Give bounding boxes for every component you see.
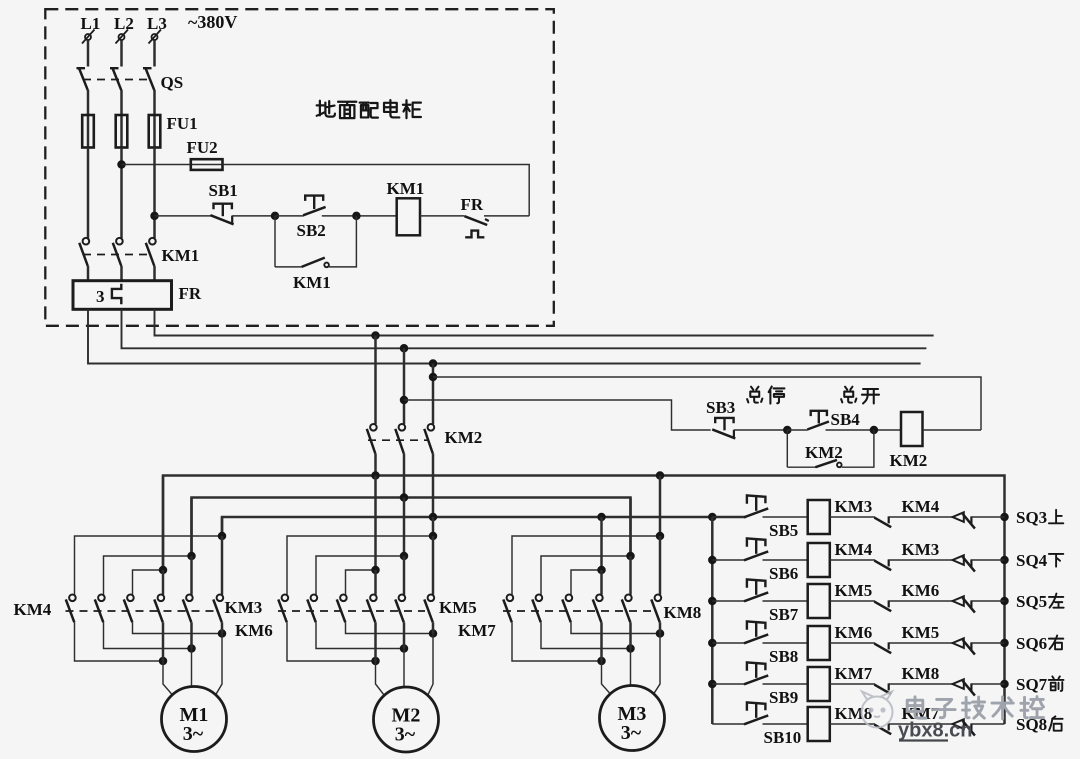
- node bus A / KM2 pole1: [371, 471, 380, 480]
- interlock contact KM5 (NC): [874, 644, 891, 654]
- wire KM1 contact 3 to FR box: [153, 266, 156, 281]
- wire row 4 rail to SB8: [712, 642, 744, 644]
- node KM8 (M3) middle: [626, 552, 635, 561]
- wire KM8 (M3) c6 passthrough: [659, 622, 662, 633]
- node KM8 (M3) inner: [597, 566, 606, 575]
- motor M1 3~: [162, 687, 227, 752]
- wire KM4/KM3 (M1) inner cross link: [133, 570, 164, 595]
- wire KM2 pole1 to bus A: [374, 454, 377, 476]
- wire coil to interlock KM5: [830, 642, 875, 644]
- fuse FU1-3: [153, 115, 156, 148]
- contactor KM5/KM7 (M2) contact 5: [399, 595, 406, 602]
- wire SB2 to KM1 coil: [322, 215, 397, 217]
- contactor KM2 main contact 3: [428, 424, 435, 431]
- svg-text:SB7: SB7: [769, 605, 799, 624]
- contactor KM4/KM3 (M1) contact 6: [217, 595, 224, 602]
- wire M2 lead left: [376, 661, 385, 695]
- svg-text:KM8: KM8: [902, 664, 940, 683]
- contactor KM8 (M3) contact 2: [536, 595, 543, 602]
- wire KM1 coil to FR contact: [420, 215, 465, 217]
- svg-text:SB8: SB8: [769, 647, 798, 666]
- wire SB7 to coil KM5: [763, 600, 808, 602]
- wire KM2 pole2 drop: [403, 348, 406, 424]
- pushbutton SB3 (NC master stop): [715, 418, 733, 423]
- contactor KM8 (M3) contact 6: [655, 595, 662, 602]
- svg-text:SB1: SB1: [209, 181, 238, 200]
- contactor KM5/KM7 (M2) contact 3: [340, 595, 347, 602]
- svg-text:SB9: SB9: [769, 688, 798, 707]
- limit switch SQ4 (NC): [953, 555, 964, 565]
- wire left control rail: [711, 517, 714, 724]
- node bus C / control rail: [708, 513, 717, 522]
- node KM5/KM7 (M2) inner: [371, 566, 380, 575]
- svg-text:SB6: SB6: [769, 564, 798, 583]
- wire KM4/KM3 (M1) bottom c2-c5: [104, 622, 192, 648]
- node KM5/KM7 (M2) outer: [429, 532, 438, 541]
- contactor KM8 (M3) contact 5: [625, 595, 632, 602]
- wire right limit-switch rail: [1003, 517, 1006, 724]
- svg-text:FR: FR: [179, 284, 202, 303]
- wire KM5/KM7 (M2) drop c4: [374, 570, 377, 595]
- wire interlock to SQ7: [889, 683, 953, 685]
- svg-text:FR: FR: [461, 195, 484, 214]
- contactor KM8 (M3) contact 1: [507, 595, 514, 602]
- auxiliary contact KM1 (NO self-hold): [302, 258, 325, 267]
- node KM2 self-hold right junction: [870, 426, 879, 435]
- wire KM5/KM7 (M2) c5 passthrough: [403, 622, 406, 648]
- wire interlock to SQ6: [889, 642, 953, 644]
- wire KM8 (M3) c5 passthrough: [629, 622, 632, 648]
- wire KM5/KM7 (M2) bottom c3-c6: [346, 622, 434, 633]
- wire KM4/KM3 (M1) feed inner: [162, 476, 165, 571]
- wire SB4 to KM2 coil: [826, 429, 902, 431]
- wire KM5/KM7 (M2) inner cross link: [346, 570, 376, 595]
- wire KM1 contact 2 to FR box: [120, 266, 123, 281]
- limit switch SQ6 (NC): [953, 638, 964, 648]
- wire KM4/KM3 (M1) bottom c3-c6: [133, 622, 223, 633]
- wire KM5/KM7 (M2) c6 passthrough: [432, 622, 435, 633]
- pushbutton SB8 (NC): [747, 621, 766, 629]
- contactor KM1 main contact 2: [116, 238, 123, 245]
- wire KM4/KM3 (M1) c4 passthrough: [162, 622, 165, 661]
- node left rail row 5: [708, 680, 717, 689]
- wire L3 to bus 1: [155, 309, 934, 335]
- limit switch SQ3 (NC): [953, 512, 964, 522]
- wire L1 FU1 to KM1 contact: [87, 148, 90, 239]
- pushbutton SB6 (NC): [747, 538, 766, 546]
- node KM8 (M3) outer: [656, 532, 665, 541]
- svg-text:SQ6: SQ6: [1016, 634, 1047, 653]
- wire KM5/KM7 (M2) bottom c2-c5: [316, 622, 404, 648]
- wire KM4/KM3 (M1) middle cross link: [104, 556, 192, 595]
- svg-text:SQ4: SQ4: [1016, 551, 1048, 570]
- svg-text:KM3: KM3: [225, 598, 263, 617]
- wire coil to interlock KM3: [830, 559, 875, 561]
- contactor KM5/KM7 (M2) contact 1: [282, 595, 289, 602]
- wire SB1 to SB2: [232, 215, 275, 217]
- wire KM5/KM7 (M2) drop c5: [403, 556, 406, 595]
- wire KM4/KM3 (M1) bottom c1-c4: [75, 622, 164, 661]
- svg-text:KM5: KM5: [902, 623, 940, 642]
- svg-text:QS: QS: [161, 73, 184, 92]
- motor M3 3~: [600, 686, 665, 751]
- node right rail row 4: [1000, 639, 1009, 648]
- node SB2 left junction: [271, 212, 280, 221]
- interlock contact KM8 (NC): [874, 685, 891, 695]
- wire SB9 to coil KM7: [763, 683, 808, 685]
- wire KM8 (M3) feed middle: [629, 498, 632, 557]
- pushbutton SB5 (NC): [747, 495, 766, 503]
- node KM4/KM3 (M1) inner: [159, 566, 168, 575]
- wire KM5/KM7 (M2) feed middle: [403, 498, 406, 557]
- node KM4/KM3 (M1) bottom c5: [187, 644, 196, 653]
- wire interlock to SQ5: [889, 600, 953, 602]
- svg-text:SQ7: SQ7: [1016, 675, 1048, 694]
- wire KM5/KM7 (M2) drop c6: [432, 536, 435, 595]
- wire SQ5 to right rail: [971, 600, 1004, 602]
- node KM5/KM7 (M2) bottom c5: [400, 644, 409, 653]
- supply terminal L2: [119, 34, 125, 40]
- node KM5/KM7 (M2) bottom c6: [429, 629, 438, 638]
- node KM5/KM7 (M2) bottom c4: [371, 657, 380, 666]
- wire KM8 (M3) bottom c2-c5: [541, 622, 631, 648]
- svg-text:SB3: SB3: [706, 398, 735, 417]
- node KM4/KM3 (M1) bottom c6: [218, 629, 227, 638]
- wire KM8 (M3) feed inner: [600, 517, 603, 570]
- node bus3/KM2 pole3: [429, 359, 438, 368]
- wire row 1 rail to SB5: [712, 516, 744, 518]
- wire M1 lead middle: [191, 649, 193, 687]
- pushbutton SB4 (NO master start): [811, 411, 827, 416]
- node right rail row 1: [1000, 513, 1009, 522]
- svg-text:KM7: KM7: [458, 621, 496, 640]
- svg-text:SB5: SB5: [769, 521, 798, 540]
- contactor KM5/KM7 (M2) contact 4: [370, 595, 377, 602]
- wire M2 lead right: [428, 634, 433, 696]
- wire row 2 rail to SB6: [712, 559, 744, 561]
- wire M3 lead right: [654, 634, 660, 694]
- coil KM7: [808, 667, 830, 701]
- contactor KM4/KM3 (M1) contact 3: [127, 595, 134, 602]
- pushbutton SB7 (NC): [747, 579, 766, 587]
- wire QS to FU1 phase 2: [120, 90, 123, 115]
- FR heater element symbol: [112, 284, 121, 305]
- svg-text:SQ5: SQ5: [1016, 592, 1047, 611]
- wire coil to interlock KM6: [830, 600, 875, 602]
- wire QS to FU1 phase 1: [87, 90, 90, 115]
- wire SB8 to coil KM6: [763, 642, 808, 644]
- wire SQ4 to right rail: [971, 559, 1004, 561]
- thermal relay FR NC contact: [465, 216, 488, 225]
- wire junction to SB4: [787, 429, 807, 431]
- disconnect switch QS pole 1: [77, 67, 86, 69]
- node KM1 self-hold right junction: [352, 212, 361, 221]
- node KM4/KM3 (M1) bottom c4: [159, 657, 168, 666]
- pushbutton SB2 (NO start): [305, 196, 323, 201]
- wire KM2 coil to return riser: [923, 429, 982, 431]
- coil KM6: [808, 626, 830, 660]
- node left rail row 2: [708, 556, 717, 565]
- contactor KM4/KM3 (M1) contact 4: [158, 595, 165, 602]
- svg-text:KM5: KM5: [439, 598, 477, 617]
- node bus C / KM2 pole3: [429, 513, 438, 522]
- wire KM5/KM7 (M2) feed inner: [374, 476, 377, 571]
- svg-text:KM1: KM1: [293, 273, 331, 292]
- wire bus A: [163, 476, 1005, 571]
- contactor KM4/KM3 (M1) contact 2: [98, 595, 105, 602]
- wire interlock to SQ4: [889, 559, 953, 561]
- svg-text:KM2: KM2: [890, 451, 928, 470]
- node bus1/KM2 pole1: [371, 331, 380, 340]
- svg-text:L2: L2: [114, 14, 134, 33]
- wire control return y377: [433, 377, 981, 430]
- pushbutton SB10 (NC): [747, 702, 766, 710]
- wire SQ3 to right rail: [971, 516, 1004, 518]
- wire SB5 to coil KM3: [763, 516, 808, 518]
- contactor KM1 main contact 3: [149, 238, 156, 245]
- wire KM2 pole3 to bus C: [432, 454, 435, 518]
- wire KM8 (M3) c4 passthrough: [600, 622, 603, 661]
- node KM8 (M3) bottom c6: [656, 629, 665, 638]
- node SB1 tap on L3: [150, 212, 159, 221]
- svg-text:KM3: KM3: [902, 540, 940, 559]
- interlock contact KM7 (NC): [874, 725, 891, 735]
- limit switch SQ7 (NC): [953, 679, 964, 689]
- contactor KM8 (M3) contact 4: [596, 595, 603, 602]
- svg-text:KM6: KM6: [835, 623, 873, 642]
- node bus2/KM2 pole2: [400, 344, 409, 353]
- supply terminal L1: [85, 34, 91, 40]
- interlock contact KM4 (NC): [874, 518, 891, 528]
- wire L2 FU1 to KM1 contact: [120, 148, 123, 239]
- wire row 3 rail to SB7: [712, 600, 744, 602]
- label 总停: [747, 387, 762, 403]
- svg-text:KM4: KM4: [14, 600, 52, 619]
- watermark 电子技术控: [907, 697, 926, 718]
- svg-text:KM5: KM5: [835, 581, 873, 600]
- disconnect switch QS pole 2: [110, 67, 119, 69]
- wire KM8 (M3) feed outer: [659, 476, 662, 537]
- wire KM4/KM3 (M1) drop c4: [162, 570, 165, 595]
- wire L3 drop to QS: [153, 41, 156, 67]
- node left rail row 4: [708, 639, 717, 648]
- wire SB10 to coil KM8: [763, 723, 808, 725]
- coil KM1: [397, 198, 420, 235]
- svg-text:SB4: SB4: [831, 410, 861, 429]
- node KM4/KM3 (M1) middle: [187, 552, 196, 561]
- wire KM8 (M3) outer cross link: [512, 536, 660, 595]
- node bus A / M3 feed: [656, 471, 665, 480]
- wire KM8 (M3) drop c4: [600, 570, 603, 595]
- wire KM4/KM3 (M1) feed outer: [221, 517, 224, 536]
- wire L2 to bus 2: [122, 309, 927, 348]
- svg-text:KM2: KM2: [805, 443, 843, 462]
- coil KM2: [901, 412, 923, 446]
- node KM4/KM3 (M1) outer: [218, 532, 227, 541]
- wire KM8 (M3) middle cross link: [541, 556, 631, 595]
- svg-text:L3: L3: [147, 14, 167, 33]
- wire KM2 pole1 drop: [374, 336, 377, 425]
- wire KM8 (M3) inner cross link: [571, 570, 602, 595]
- svg-text:3~: 3~: [395, 724, 416, 746]
- wire KM4/KM3 (M1) c6 passthrough: [221, 622, 224, 633]
- auxiliary contact KM2 (NO self-hold): [815, 460, 837, 467]
- wire KM4/KM3 (M1) feed middle: [190, 498, 193, 557]
- wire M1 lead left: [163, 661, 172, 695]
- wire QS to FU1 phase 3: [153, 90, 156, 115]
- fuse FU1-2: [120, 115, 123, 148]
- svg-text:FU2: FU2: [187, 138, 218, 157]
- wire KM8 (M3) drop c5: [629, 556, 632, 595]
- wire KM2 self-hold branch left: [786, 430, 788, 467]
- svg-text:KM4: KM4: [902, 497, 940, 516]
- wire KM4/KM3 (M1) c5 passthrough: [190, 622, 193, 648]
- wire KM2 pole3 drop: [432, 364, 435, 425]
- wire FU2 to right riser: [223, 165, 530, 216]
- KM5/KM7 (M2) mechanical link: [278, 610, 425, 612]
- wire SB3 to SB4: [734, 429, 787, 431]
- svg-text:KM6: KM6: [235, 621, 273, 640]
- label 地面配电柜: [317, 101, 335, 117]
- limit switch SQ5 (NC): [953, 596, 964, 606]
- node control tap y377: [429, 373, 438, 382]
- svg-text:KM3: KM3: [835, 497, 873, 516]
- wire KM2 self-hold branch right: [842, 430, 874, 467]
- contactor KM8 (M3) contact 3: [566, 595, 573, 602]
- node SB4 left junction: [783, 426, 792, 435]
- node FU2 tap on L2: [117, 160, 126, 169]
- wire self-hold branch right: [329, 216, 356, 267]
- wire junction to SB2: [275, 215, 304, 217]
- svg-text:KM8: KM8: [664, 603, 702, 622]
- svg-text:KM1: KM1: [162, 246, 200, 265]
- coil KM5: [808, 584, 830, 618]
- disconnect switch QS pole 3: [143, 67, 152, 69]
- wire self-hold branch left: [274, 216, 276, 267]
- svg-text:FU1: FU1: [167, 114, 198, 133]
- fuse FU2: [191, 164, 223, 166]
- wire M3 lead middle: [630, 649, 632, 686]
- wire L2 drop to QS: [120, 41, 123, 67]
- QS mechanical link: [83, 79, 149, 81]
- node right rail row 5: [1000, 680, 1009, 689]
- svg-text:KM2: KM2: [445, 428, 483, 447]
- wire KM1 contact 1 to FR box: [87, 266, 90, 281]
- wire L3 FU1 to KM1 contact: [153, 148, 156, 239]
- KM4/KM3 (M1) mechanical link: [66, 610, 215, 612]
- wire KM4/KM3 (M1) outer cross link: [75, 536, 223, 595]
- wire interlock to SQ8: [889, 723, 953, 725]
- svg-text:KM8: KM8: [835, 704, 873, 723]
- wire KM8 (M3) drop c6: [659, 536, 662, 595]
- contactor KM4/KM3 (M1) contact 5: [186, 595, 193, 602]
- wire KM4/KM3 (M1) drop c6: [221, 536, 224, 595]
- contactor KM2 main contact 1: [370, 424, 377, 431]
- motor M2 3~: [374, 687, 439, 752]
- wire SB6 to coil KM4: [763, 559, 808, 561]
- wire M1 lead right: [216, 634, 222, 695]
- supply terminal L3: [152, 34, 158, 40]
- wire FR to riser: [484, 215, 529, 217]
- node KM8 (M3) bottom c4: [597, 657, 606, 666]
- dashed enclosure 地面配电柜 panel: [45, 9, 554, 326]
- wire M2 lead middle: [403, 649, 405, 688]
- svg-text:SQ3: SQ3: [1016, 508, 1047, 527]
- wire self-hold branch bottom-left: [275, 266, 302, 268]
- wire coil to interlock KM8: [830, 683, 875, 685]
- contactor KM5/KM7 (M2) contact 6: [428, 595, 435, 602]
- interlock contact KM6 (NC): [874, 602, 891, 612]
- wire FU2 feed: [122, 164, 191, 166]
- coil KM3: [808, 500, 830, 534]
- wire L1 drop to QS: [87, 41, 90, 67]
- svg-text:~380V: ~380V: [188, 12, 237, 32]
- node right rail row 2: [1000, 556, 1009, 565]
- wire bus B: [192, 498, 631, 557]
- interlock contact KM3 (NC): [874, 561, 891, 571]
- svg-text:L1: L1: [81, 14, 101, 33]
- wire KM8 (M3) bottom c3-c6: [571, 622, 660, 633]
- label 总开: [841, 387, 856, 403]
- wire row 6 rail to SB10: [712, 723, 744, 725]
- watermark logo: [862, 692, 893, 728]
- KM1 mechanical link: [83, 254, 148, 256]
- coil KM4: [808, 543, 830, 577]
- wire row 5 rail to SB9: [712, 683, 744, 685]
- wire KM8 (M3) bottom c1-c4: [512, 622, 602, 661]
- svg-text:KM6: KM6: [902, 581, 940, 600]
- svg-text:3~: 3~: [621, 722, 642, 744]
- node bus B / KM2 pole2: [400, 493, 409, 502]
- wire KM5/KM7 (M2) outer cross link: [287, 536, 433, 595]
- node control tap y400: [400, 396, 409, 405]
- pushbutton SB9 (NC): [747, 662, 766, 670]
- node bus C / M3 feed: [597, 513, 606, 522]
- node right rail row 3: [1000, 597, 1009, 606]
- coil KM8: [808, 707, 830, 741]
- wire SQ8 to right rail: [971, 723, 1004, 725]
- wire L1 to bus 3: [88, 309, 921, 363]
- node KM8 (M3) bottom c5: [626, 644, 635, 653]
- wire L3 tap to SB1: [155, 215, 211, 217]
- contactor KM1 main contact 1: [83, 238, 90, 245]
- wire M3 lead left: [602, 661, 611, 694]
- KM8 (M3) mechanical link: [503, 610, 652, 612]
- node left rail row 3: [708, 597, 717, 606]
- svg-text:KM4: KM4: [835, 540, 873, 559]
- wire coil to interlock KM7: [830, 723, 875, 725]
- svg-text:KM1: KM1: [387, 179, 425, 198]
- wire interlock to SQ3: [889, 516, 953, 518]
- wire coil to interlock KM4: [830, 516, 875, 518]
- wire KM5/KM7 (M2) middle cross link: [316, 556, 404, 595]
- svg-text:SB10: SB10: [764, 728, 802, 747]
- node KM5/KM7 (M2) middle: [400, 552, 409, 561]
- wire KM2 pole2 to bus B: [403, 454, 406, 498]
- wire KM5/KM7 (M2) feed outer: [432, 517, 435, 536]
- KM2 mechanical link: [368, 439, 428, 441]
- wire KM2 self-hold bottom-left: [787, 466, 815, 468]
- pushbutton SB1 (NC stop): [214, 204, 232, 210]
- limit switch SQ8 (NC): [953, 719, 964, 729]
- svg-text:3: 3: [96, 287, 105, 306]
- svg-text:3~: 3~: [183, 723, 204, 745]
- contactor KM4/KM3 (M1) contact 1: [69, 595, 76, 602]
- svg-text:ybx8.cn: ybx8.cn: [898, 720, 972, 742]
- svg-text:SB2: SB2: [297, 221, 326, 240]
- svg-text:KM7: KM7: [835, 664, 873, 683]
- fuse FU1-1: [87, 115, 90, 148]
